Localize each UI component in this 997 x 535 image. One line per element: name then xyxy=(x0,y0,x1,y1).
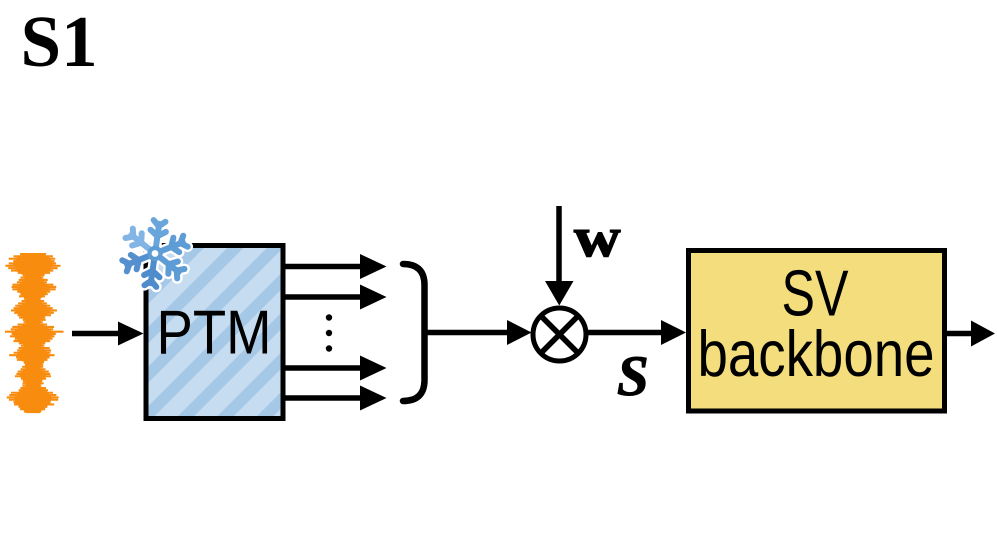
svg-text:backbone: backbone xyxy=(698,317,935,390)
SV backbone box xyxy=(689,251,945,412)
wire: output arrow xyxy=(947,321,995,347)
svg-text:S1: S1 xyxy=(21,1,98,82)
svg-text:S: S xyxy=(617,345,649,408)
multiplier node (circle with X) xyxy=(533,308,586,361)
wire: embedding arrow 1 xyxy=(283,254,387,279)
wire: multiplier to SV backbone xyxy=(585,320,686,345)
wire: bracket to multiplier xyxy=(427,320,532,345)
wire: embedding arrow 3 xyxy=(283,356,387,381)
svg-text:PTM: PTM xyxy=(157,299,272,368)
PTM box (frozen, hatched) xyxy=(146,246,283,419)
wire: embedding arrow 4 xyxy=(283,386,387,411)
input audio waveform xyxy=(5,253,64,413)
snowflake (frozen indicator) xyxy=(122,220,187,287)
dots (ellipsis between embedding arrows) xyxy=(326,314,332,351)
wire: weight w arrow into multiplier xyxy=(545,206,574,306)
bracket (concatenation) xyxy=(403,264,425,401)
wire: input arrow to PTM xyxy=(72,322,144,346)
wire: embedding arrow 2 xyxy=(283,285,387,310)
label SV backbone xyxy=(698,257,935,391)
svg-text:w: w xyxy=(574,207,621,269)
